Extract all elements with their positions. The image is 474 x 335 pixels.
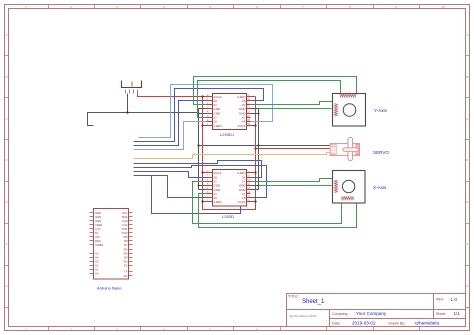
svg-text:ntlp://lst.shtawy.p.dthbtn: ntlp://lst.shtawy.p.dthbtn bbox=[289, 314, 317, 318]
svg-text:Y-Axis: Y-Axis bbox=[374, 108, 388, 113]
svg-text:F: F bbox=[467, 242, 469, 246]
wire: servo GND bbox=[199, 145, 331, 147]
svg-text:Drawn By:: Drawn By: bbox=[389, 321, 406, 325]
connector U3: Arduino Nano bbox=[90, 209, 133, 280]
red stubs bbox=[203, 97, 256, 202]
title block bbox=[287, 294, 466, 327]
wire: 1Y U2 to X motor bottom right bbox=[199, 194, 357, 228]
wire: GND to Y motor left coil bottom bbox=[259, 108, 332, 110]
svg-text:SIG: SIG bbox=[331, 153, 335, 155]
svg-text:F: F bbox=[6, 242, 8, 246]
wire: connector GND down bbox=[127, 94, 129, 113]
wire: 2Y U1 to Y motor top coil right bbox=[194, 77, 357, 105]
svg-text:E: E bbox=[466, 200, 468, 204]
svg-text:AREF: AREF bbox=[95, 223, 103, 227]
svg-text:A5: A5 bbox=[95, 251, 99, 255]
wire: 2Y U2 to X motor bottom coil bbox=[193, 182, 342, 224]
svg-text:VCC1: VCC1 bbox=[238, 200, 246, 204]
svg-text:D2: D2 bbox=[124, 264, 128, 268]
svg-text:GND: GND bbox=[95, 219, 101, 223]
svg-text:A0: A0 bbox=[95, 272, 99, 276]
svg-text:1,2EN: 1,2EN bbox=[213, 200, 221, 204]
svg-text:Sheet:: Sheet: bbox=[436, 312, 446, 316]
GND stubs U1 bbox=[199, 109, 259, 114]
junction bbox=[126, 111, 128, 113]
svg-text:B: B bbox=[5, 75, 7, 79]
op U2: L293D bbox=[207, 170, 251, 220]
VCC red loop rail bbox=[203, 97, 256, 210]
wire: 1Y U1 to Y motor top coil left bbox=[198, 81, 341, 118]
svg-text:D4: D4 bbox=[124, 255, 128, 259]
wire b2: 3A U1 loop bbox=[134, 89, 264, 142]
wire: GND horizontal with open hook bbox=[88, 113, 199, 126]
svg-text:*D6: *D6 bbox=[123, 247, 128, 251]
svg-text:*D11: *D11 bbox=[122, 227, 128, 231]
svg-text:TITLE:: TITLE: bbox=[288, 295, 299, 299]
svg-text:Company:: Company: bbox=[332, 312, 348, 316]
svg-text:Date:: Date: bbox=[332, 321, 341, 325]
svg-text:*D9: *D9 bbox=[123, 235, 128, 239]
svg-text:IOREF: IOREF bbox=[95, 243, 104, 247]
wire: 3Y U2 to X motor left coil top bbox=[251, 179, 336, 182]
svg-text:GND: GND bbox=[95, 215, 101, 219]
svg-text:GND: GND bbox=[95, 211, 101, 215]
wire: GND to X motor left coil bottom bbox=[259, 185, 332, 187]
svg-text:A1: A1 bbox=[95, 268, 99, 272]
motor M2 X-Axis bbox=[333, 171, 366, 204]
motor M1 Y-Axis bbox=[333, 94, 366, 127]
svg-text:RES: RES bbox=[95, 239, 101, 243]
svg-text:X-Axis: X-Axis bbox=[373, 185, 387, 190]
wire b5: 3A U2 bbox=[134, 161, 262, 178]
svg-text:1.0: 1.0 bbox=[451, 297, 458, 302]
svg-text:A4: A4 bbox=[95, 255, 99, 259]
svg-text:SERVO: SERVO bbox=[373, 150, 389, 155]
svg-text:*D5: *D5 bbox=[123, 251, 128, 255]
svg-text:3.3V: 3.3V bbox=[95, 227, 101, 231]
svg-text:D7: D7 bbox=[124, 243, 128, 247]
svg-text:10: 10 bbox=[441, 5, 445, 9]
wire: servo VCC bbox=[256, 148, 331, 150]
svg-text:VIN: VIN bbox=[95, 235, 100, 239]
wire: connector VCC down/right to U1 bbox=[138, 94, 207, 97]
svg-text:B: B bbox=[466, 75, 468, 79]
wire: 3Y U1 to Y motor left coil top bbox=[251, 102, 336, 105]
wire b6: 4A U2 loop bbox=[134, 166, 267, 198]
wire b1: 4A U1 loop (light blue) bbox=[139, 85, 273, 138]
svg-text:5V: 5V bbox=[95, 231, 99, 235]
svg-text:1/1: 1/1 bbox=[454, 311, 461, 316]
svg-text:A: A bbox=[466, 33, 468, 37]
svg-text:RX: RX bbox=[124, 274, 128, 278]
svg-text:rphamidattu: rphamidattu bbox=[415, 321, 440, 326]
svg-text:GND: GND bbox=[331, 146, 336, 148]
svg-text:D13: D13 bbox=[122, 219, 128, 223]
wire b7: 2A U2 bbox=[134, 172, 207, 178]
GND rail right vertical bbox=[258, 109, 260, 190]
op U1: L293D-I bbox=[207, 94, 251, 138]
svg-text:TX: TX bbox=[124, 270, 128, 274]
GND stubs U2 bbox=[199, 186, 259, 190]
wire b3: 2A U1 bbox=[134, 101, 207, 146]
svg-text:A3: A3 bbox=[95, 260, 99, 264]
svg-text:Your Company: Your Company bbox=[356, 311, 387, 316]
GND junction dots bbox=[198, 113, 260, 187]
wire: orange servo signal from left bbox=[134, 153, 331, 159]
wire b9: under loop U2 bbox=[152, 176, 241, 214]
svg-text:SCL: SCL bbox=[122, 211, 128, 215]
svg-text:E: E bbox=[5, 200, 7, 204]
svg-text:A2: A2 bbox=[95, 264, 99, 268]
svg-text:Sheet_1: Sheet_1 bbox=[302, 299, 325, 305]
svg-text:*D3: *D3 bbox=[123, 260, 128, 264]
svg-text:VCC: VCC bbox=[331, 150, 336, 152]
svg-text:VCC1: VCC1 bbox=[238, 124, 246, 128]
servo SG90 bbox=[330, 137, 359, 160]
svg-text:SDA: SDA bbox=[122, 215, 128, 219]
svg-text:D12: D12 bbox=[122, 223, 128, 227]
svg-text:*D10: *D10 bbox=[121, 231, 128, 235]
GND rail left vertical bbox=[198, 109, 200, 190]
wire b4: 1A U1 (light) bbox=[134, 122, 207, 150]
svg-text:D8: D8 bbox=[124, 239, 128, 243]
svg-text:1,2EN: 1,2EN bbox=[213, 124, 221, 128]
VCC junction dots bbox=[201, 95, 256, 202]
svg-text:REV:: REV: bbox=[436, 298, 444, 302]
svg-text:A: A bbox=[5, 33, 7, 37]
connector J1 (power header) bbox=[121, 81, 142, 94]
svg-text:2019-03-02: 2019-03-02 bbox=[352, 321, 376, 326]
svg-text:Arduino Nano: Arduino Nano bbox=[97, 286, 122, 291]
svg-text:L293D-I: L293D-I bbox=[220, 132, 234, 137]
svg-text:L293D: L293D bbox=[222, 214, 234, 219]
wire b8: 1A U2 bbox=[134, 176, 207, 198]
